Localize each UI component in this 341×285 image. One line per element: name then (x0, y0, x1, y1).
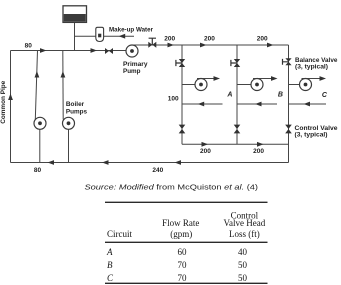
svg-text:200: 200 (253, 148, 264, 155)
arrow left on bottom return seg 3 (175, 160, 182, 165)
arrow right on pump B discharge (271, 76, 278, 81)
svg-text:100: 100 (168, 95, 179, 102)
svg-text:50: 50 (238, 273, 248, 283)
arrow up on common pipe (8, 94, 13, 101)
svg-text:200: 200 (200, 148, 211, 155)
primary pump P1 (126, 45, 138, 57)
svg-text:A: A (106, 247, 113, 257)
svg-text:(3, typical): (3, typical) (295, 64, 328, 71)
balance valve circuit 3 (283, 58, 292, 65)
svg-text:Pump: Pump (123, 68, 141, 75)
wire: bottom return main (11, 162, 289, 164)
svg-text:Source: Modified from McQuisto: Source: Modified from McQuiston et al. (… (85, 185, 259, 192)
globe valve on primary pump discharge (148, 38, 156, 48)
arrow right before gate valve (91, 48, 98, 53)
svg-text:Boiler: Boiler (66, 101, 85, 108)
svg-text:B: B (278, 92, 283, 99)
svg-text:(3, typical): (3, typical) (295, 131, 328, 138)
svg-text:Common Pipe: Common Pipe (0, 80, 7, 123)
svg-text:60: 60 (178, 247, 188, 257)
svg-text:Make-up Water: Make-up Water (109, 26, 153, 33)
arrow right on top-left header (40, 48, 47, 53)
control valve circuit 3 (285, 125, 292, 134)
circuit pump B (251, 79, 263, 91)
svg-text:70: 70 (178, 260, 188, 270)
boiler pump 2 (63, 117, 75, 129)
svg-text:Valve Head: Valve Head (224, 218, 266, 228)
svg-text:50: 50 (238, 260, 248, 270)
wire: return sub-header (182, 143, 289, 145)
wire: top-left header (11, 50, 127, 52)
arrow right on pump A discharge (214, 76, 221, 81)
wire: pump A suction (182, 84, 195, 86)
svg-text:200: 200 (257, 35, 268, 42)
arrow left on circuit C return (304, 102, 311, 107)
boiler pump 1 (34, 117, 46, 129)
arrow right on return sub-header seg 1 (202, 142, 209, 147)
svg-text:B: B (107, 260, 113, 270)
common pipe (left vertical) (10, 51, 12, 163)
wire: make-up water branch (75, 35, 135, 37)
arrow up on boiler riser 2 (61, 71, 66, 78)
wire: circuit vertical 3 (288, 45, 290, 163)
wire: circuit vertical 2 (236, 45, 238, 144)
circuit pump A (195, 79, 207, 91)
svg-text:Loss (ft): Loss (ft) (229, 229, 260, 239)
wire: pump C discharge (302, 78, 321, 80)
control valve circuit 1 (179, 125, 186, 134)
svg-text:240: 240 (152, 167, 163, 174)
arrow right on supply header seg 1 (168, 43, 175, 48)
wire: circuit C return (289, 103, 327, 105)
pressure reducing valve (make-up) (96, 27, 104, 41)
wire: pump A discharge (197, 78, 215, 80)
svg-text:40: 40 (238, 247, 248, 257)
arrow left on circuit A return (198, 102, 205, 107)
wire: boiler pump 1 tail (39, 129, 41, 162)
arrow left on circuit B return (255, 102, 262, 107)
gate valve on primary pump suction (105, 48, 113, 54)
arrow right on pump C discharge (320, 76, 327, 81)
svg-text:200: 200 (164, 35, 175, 42)
svg-text:200: 200 (204, 35, 215, 42)
wire: supply header after primary pump (132, 44, 289, 46)
wire: pump C suction (289, 84, 300, 86)
arrow left on bottom return seg 2 (102, 160, 109, 165)
wire: boiler riser 2 (62, 51, 64, 120)
arrow right on supply header seg 3 (267, 43, 274, 48)
svg-text:Primary: Primary (123, 61, 148, 68)
balance valve circuit 1 (176, 59, 185, 67)
wire: boiler riser 1 (35, 51, 37, 120)
circuit pump C (300, 79, 312, 91)
svg-text:C: C (107, 273, 114, 283)
wire: circuit A return (182, 103, 223, 105)
table rules (105, 202, 268, 283)
svg-text:Circuit: Circuit (107, 229, 132, 239)
wire: pump B discharge (253, 78, 272, 80)
svg-text:Pumps: Pumps (66, 108, 88, 115)
balance valve circuit 2 (231, 59, 240, 67)
wire: tank riser (74, 23, 76, 51)
wire: pump B suction (237, 84, 251, 86)
arrow up on boiler riser 1 (35, 71, 40, 78)
wire: circuit B return (237, 103, 277, 105)
arrow left on bottom return seg 1 (48, 160, 55, 165)
svg-text:80: 80 (34, 167, 42, 174)
expansion tank (63, 6, 87, 23)
svg-text:80: 80 (25, 42, 33, 49)
wire: circuit vertical 1 (181, 45, 183, 144)
control valve circuit 2 (234, 125, 241, 134)
svg-text:(gpm): (gpm) (170, 229, 192, 239)
svg-text:A: A (226, 92, 232, 99)
arrow right on return sub-header seg 2 (257, 142, 264, 147)
wire: boiler pump 2 tail (68, 129, 70, 162)
arrow left on make-up water line (119, 34, 126, 39)
svg-text:Flow Rate: Flow Rate (162, 218, 199, 228)
svg-text:70: 70 (178, 273, 188, 283)
arrow right on supply header seg 2 (200, 43, 207, 48)
